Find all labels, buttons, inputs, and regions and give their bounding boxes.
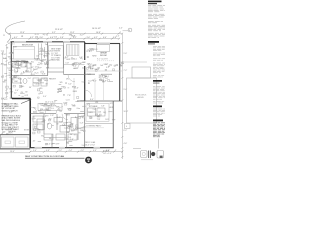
svg-text:HDR: HDR xyxy=(35,58,40,60)
svg-text:3'-0": 3'-0" xyxy=(80,35,84,37)
svg-text:42": 42" xyxy=(33,140,36,142)
great room bottom dim line xyxy=(85,70,122,72)
svg-text:NEW: NEW xyxy=(24,62,28,64)
svg-text:NEW: NEW xyxy=(67,108,71,110)
svg-text:NEW: NEW xyxy=(73,91,77,93)
svg-text:9'-2": 9'-2" xyxy=(43,116,47,118)
dense lower right of center xyxy=(64,122,85,134)
svg-text:5'-8": 5'-8" xyxy=(42,74,46,76)
svg-text:42": 42" xyxy=(105,64,108,66)
svg-text:4'-4": 4'-4" xyxy=(69,150,73,152)
svg-text:NEW: NEW xyxy=(15,64,19,66)
svg-text:19'-4": 19'-4" xyxy=(10,151,15,153)
svg-text:42": 42" xyxy=(8,43,11,45)
svg-text:4'-2": 4'-2" xyxy=(94,37,98,39)
svg-text:6: 6 xyxy=(126,126,127,128)
svg-text:5'-8": 5'-8" xyxy=(65,63,69,65)
svg-text:9'-2": 9'-2" xyxy=(13,77,17,79)
svg-text:NEW: NEW xyxy=(43,56,47,58)
svg-text:NEW: NEW xyxy=(92,56,96,58)
top dimension line 2 xyxy=(12,38,120,40)
bottom band specks xyxy=(33,134,86,147)
svg-text:1'-8": 1'-8" xyxy=(42,50,46,52)
svg-text:5'-8": 5'-8" xyxy=(60,37,64,39)
svg-text:A5.1: A5.1 xyxy=(73,58,77,61)
svg-text:12'-6": 12'-6" xyxy=(46,144,51,146)
svg-text:SIM: SIM xyxy=(72,64,76,66)
lower center band 1 xyxy=(33,100,85,113)
bath area specks xyxy=(14,61,50,76)
svg-text:GREAT: GREAT xyxy=(100,52,108,55)
svg-text:16'-8": 16'-8" xyxy=(96,32,101,34)
right exterior wall xyxy=(119,44,121,102)
svg-text:5'-8": 5'-8" xyxy=(82,82,86,84)
bath fixtures xyxy=(13,63,48,86)
svg-text:PANTRY: PANTRY xyxy=(49,78,57,81)
svg-text:4'-2": 4'-2" xyxy=(81,150,85,152)
svg-text:2x6: 2x6 xyxy=(36,56,39,58)
line left of icons xyxy=(133,148,141,150)
left exterior wall xyxy=(10,42,12,99)
top exterior wall left span xyxy=(11,41,86,43)
svg-text:4'-6": 4'-6" xyxy=(93,150,97,152)
title bubble xyxy=(85,157,92,164)
svg-text:36": 36" xyxy=(29,87,32,89)
svg-text:42": 42" xyxy=(14,93,17,95)
svg-text:4'-8": 4'-8" xyxy=(103,81,107,83)
svg-text:42": 42" xyxy=(51,144,54,146)
svg-text:12'-6": 12'-6" xyxy=(74,87,79,89)
svg-text:36": 36" xyxy=(25,91,28,93)
windows top wall xyxy=(14,41,70,42)
svg-text:9'-1" CLG HT: 9'-1" CLG HT xyxy=(97,59,109,61)
svg-text:3'-0": 3'-0" xyxy=(89,51,93,53)
svg-text:SIM: SIM xyxy=(46,67,50,69)
svg-text:6'-0": 6'-0" xyxy=(47,106,51,108)
lower center band 2 xyxy=(32,114,86,134)
svg-text:R-21: R-21 xyxy=(105,119,109,121)
svg-text:COVERED PATIO: COVERED PATIO xyxy=(86,125,102,128)
svg-text:SIM: SIM xyxy=(121,63,125,65)
bedroom bottom wall xyxy=(11,60,28,62)
hall closet rects xyxy=(33,116,43,130)
bottom dimension line xyxy=(30,151,122,153)
svg-text:SIM: SIM xyxy=(56,106,60,108)
annotation box xyxy=(49,46,64,69)
lower center fixtures xyxy=(37,118,77,141)
garage door rect 2 xyxy=(16,137,29,147)
master label box xyxy=(38,104,62,111)
interior wall bedroom right xyxy=(47,42,49,76)
svg-text:5'-8": 5'-8" xyxy=(101,105,105,107)
garage top wall xyxy=(0,134,30,136)
svg-text:4: 4 xyxy=(129,30,130,32)
mid-right horizontal wall xyxy=(77,100,122,102)
below great room wall xyxy=(87,74,113,84)
svg-text:9'-2": 9'-2" xyxy=(52,32,56,34)
svg-text:4'-6": 4'-6" xyxy=(124,143,128,145)
closet cluster specks xyxy=(36,44,52,66)
svg-text:3'-0": 3'-0" xyxy=(44,63,48,65)
svg-text:12'-6": 12'-6" xyxy=(2,54,7,56)
svg-text:R-21: R-21 xyxy=(18,79,22,81)
svg-text:NEW CONSTRUCTION FLOOR PLAN: NEW CONSTRUCTION FLOOR PLAN xyxy=(25,155,65,158)
right of stair specks xyxy=(63,57,86,70)
dense legal block xyxy=(153,120,163,122)
svg-text:2-CAR: 2-CAR xyxy=(8,128,14,131)
svg-text:R-21: R-21 xyxy=(35,34,39,36)
svg-text:CLG: CLG xyxy=(51,104,55,106)
svg-text:2'-4": 2'-4" xyxy=(35,125,39,127)
svg-text:SIM: SIM xyxy=(14,81,18,83)
svg-text:36": 36" xyxy=(3,131,6,133)
svg-text:6'-2": 6'-2" xyxy=(93,81,97,83)
y61 band specks xyxy=(14,58,48,64)
left dim texts xyxy=(1,47,14,134)
svg-text:2'-6": 2'-6" xyxy=(116,36,120,38)
svg-text:36": 36" xyxy=(70,134,73,136)
svg-text:SIM: SIM xyxy=(46,110,50,112)
deck leader xyxy=(121,61,148,63)
svg-text:6'-1": 6'-1" xyxy=(14,37,18,39)
heading 4 xyxy=(153,106,162,108)
stair landing edge xyxy=(64,64,85,66)
kitchen specks xyxy=(88,102,116,121)
svg-text:1'-8": 1'-8" xyxy=(79,57,83,59)
lower mid walls xyxy=(31,113,57,115)
svg-text:SIM: SIM xyxy=(88,67,92,69)
svg-text:R-21: R-21 xyxy=(35,73,39,75)
patio edge xyxy=(85,122,114,124)
svg-text:2'-4": 2'-4" xyxy=(72,35,76,37)
svg-text:5'-8": 5'-8" xyxy=(81,116,85,118)
svg-text:8'-4": 8'-4" xyxy=(90,99,94,101)
svg-text:3'-0": 3'-0" xyxy=(28,78,32,80)
lower right interior wall xyxy=(112,101,114,148)
svg-text:3'-0": 3'-0" xyxy=(68,84,72,86)
media niche rect xyxy=(97,45,110,52)
central hall wall xyxy=(84,42,86,60)
svg-text:36": 36" xyxy=(47,123,50,125)
svg-text:1'-8": 1'-8" xyxy=(65,139,69,141)
mid horizontal wall center xyxy=(48,71,64,73)
svg-text:6'-2": 6'-2" xyxy=(124,130,128,132)
lower interior wall horizontal xyxy=(44,137,67,139)
great room bottom wall xyxy=(85,73,95,75)
svg-text:ABOVE: ABOVE xyxy=(138,96,145,99)
svg-text:2x6: 2x6 xyxy=(54,36,57,38)
svg-text:5'-8": 5'-8" xyxy=(70,139,74,141)
door swing arcs xyxy=(31,62,92,120)
svg-text:3'-6": 3'-6" xyxy=(40,37,44,39)
heading 3 xyxy=(153,80,162,82)
svg-text:GARAGE: GARAGE xyxy=(8,130,16,133)
svg-text:2x6: 2x6 xyxy=(45,44,48,46)
svg-text:5'-0": 5'-0" xyxy=(33,150,37,152)
svg-text:NEW: NEW xyxy=(33,83,37,85)
interior wall stair left xyxy=(63,42,65,75)
garage bottom wall xyxy=(0,148,30,150)
bed rect xyxy=(14,47,35,60)
svg-text:SIM: SIM xyxy=(42,121,46,123)
svg-text:3'-0": 3'-0" xyxy=(87,37,91,39)
heading DOOR NOTES xyxy=(148,41,159,43)
icon rounded rect 2 xyxy=(157,151,164,159)
keynote box right of patio xyxy=(125,124,131,129)
svg-text:5'-8": 5'-8" xyxy=(80,122,84,124)
svg-text:5'-2": 5'-2" xyxy=(30,37,34,39)
svg-text:1'-8": 1'-8" xyxy=(50,115,54,117)
svg-text:9'-6": 9'-6" xyxy=(124,53,128,55)
svg-text:HDR: HDR xyxy=(66,59,71,61)
svg-text:7'-2": 7'-2" xyxy=(124,70,128,72)
svg-text:12'-6": 12'-6" xyxy=(20,32,25,34)
revision break curve top-left xyxy=(5,21,25,43)
deck main rect xyxy=(127,78,157,123)
stair treads xyxy=(67,45,78,56)
svg-text:12'-6": 12'-6" xyxy=(63,123,68,125)
bottom-left dim line xyxy=(0,152,30,154)
svg-text:3'-0": 3'-0" xyxy=(43,96,47,98)
svg-text:36": 36" xyxy=(45,84,48,86)
svg-text:3'-2": 3'-2" xyxy=(59,150,63,152)
svg-text:1'-8": 1'-8" xyxy=(21,73,25,75)
svg-text:ROOM: ROOM xyxy=(100,55,107,57)
svg-text:1/4" = 1'-0": 1/4" = 1'-0" xyxy=(103,153,112,155)
icon caption xyxy=(141,159,153,161)
lower interior wall verticals xyxy=(44,114,78,148)
svg-text:2x6: 2x6 xyxy=(98,112,101,114)
svg-text:A5.1: A5.1 xyxy=(92,64,96,67)
garage door rect 1 xyxy=(2,137,15,147)
svg-text:1'-8": 1'-8" xyxy=(93,109,97,111)
svg-text:22'-8 1/2": 22'-8 1/2" xyxy=(55,29,63,31)
mid horizontal wall left xyxy=(11,75,47,77)
svg-text:SIM: SIM xyxy=(4,65,8,67)
dimension ticks xyxy=(9,33,124,40)
svg-text:36": 36" xyxy=(40,64,43,66)
svg-text:HANDRAIL: HANDRAIL xyxy=(51,59,60,62)
svg-text:16'-10 1/2": 16'-10 1/2" xyxy=(92,28,101,30)
svg-text:CLG: CLG xyxy=(66,100,70,102)
svg-text:9'-2": 9'-2" xyxy=(57,117,61,119)
svg-text:3'-0": 3'-0" xyxy=(65,57,69,59)
svg-text:2x6: 2x6 xyxy=(15,71,18,73)
svg-text:A5.1: A5.1 xyxy=(11,42,15,45)
notes paragraph 4 xyxy=(153,109,165,116)
speckle dim gaps xyxy=(22,34,84,39)
svg-text:SIDING TO MATCH: SIDING TO MATCH xyxy=(2,110,19,113)
right vertical dimension line xyxy=(121,33,123,159)
notes paragraph 3 xyxy=(153,87,165,103)
svg-text:R-21: R-21 xyxy=(94,49,98,51)
left vertical dimension lines xyxy=(2,52,4,134)
hall dim vertical xyxy=(73,78,75,100)
svg-text:9'-0": 9'-0" xyxy=(124,89,128,91)
windows in bottom wall xyxy=(35,147,101,149)
svg-text:6'-0": 6'-0" xyxy=(1,98,5,100)
great room left specks xyxy=(86,49,97,58)
hall area specks xyxy=(13,77,49,99)
svg-text:36": 36" xyxy=(29,63,32,65)
svg-text:4'-8": 4'-8" xyxy=(46,150,50,152)
svg-text:R-21: R-21 xyxy=(87,74,91,76)
svg-text:6'-4": 6'-4" xyxy=(103,37,107,39)
left wall ticks xyxy=(8,42,17,80)
icon rounded rect 1 xyxy=(141,151,148,158)
svg-text:R-21: R-21 xyxy=(38,80,42,82)
svg-text:4'-0": 4'-0" xyxy=(119,27,123,29)
heavy corner wall lower-left xyxy=(12,98,31,100)
svg-text:NEW: NEW xyxy=(95,69,99,71)
notes top paragraphs xyxy=(148,6,165,38)
svg-text:A5.1: A5.1 xyxy=(105,75,109,78)
icon bars + circle xyxy=(149,151,151,159)
svg-text:PATIO SLAB: PATIO SLAB xyxy=(85,141,96,144)
top dimension line 1 xyxy=(9,33,123,35)
kitchen room outline xyxy=(86,104,109,122)
dim verticals above kitchen xyxy=(95,78,104,100)
connector below legal block xyxy=(158,139,160,149)
svg-text:SIM: SIM xyxy=(40,109,44,111)
svg-text:9'-2": 9'-2" xyxy=(72,105,76,107)
svg-text:STOR: STOR xyxy=(24,130,30,132)
notes mid paragraphs xyxy=(153,47,165,78)
bottom exterior wall xyxy=(30,147,114,149)
svg-text:16'-0" x 8'-0": 16'-0" x 8'-0" xyxy=(85,145,95,147)
garage left wall xyxy=(0,135,2,149)
svg-text:2x6: 2x6 xyxy=(100,65,103,67)
svg-text:HDR: HDR xyxy=(89,112,94,114)
closet shelving xyxy=(39,44,48,60)
svg-text:SIM: SIM xyxy=(59,91,63,93)
svg-text:5'-8": 5'-8" xyxy=(9,73,13,75)
svg-text:KITCHEN: KITCHEN xyxy=(89,106,98,108)
svg-text:HDR: HDR xyxy=(109,107,114,109)
deck upper rect xyxy=(132,67,151,78)
center text block specks xyxy=(57,82,86,99)
great room dim text band xyxy=(87,63,125,71)
svg-text:2'-4": 2'-4" xyxy=(73,66,77,68)
svg-text:42": 42" xyxy=(82,68,85,70)
leader arrow xyxy=(21,100,31,104)
svg-text:HDR: HDR xyxy=(13,47,18,49)
svg-text:10'-4": 10'-4" xyxy=(124,111,129,113)
top exterior wall right span xyxy=(85,43,120,45)
svg-text:36": 36" xyxy=(20,61,23,63)
notes heading 1 xyxy=(148,1,162,3)
svg-text:1'-8": 1'-8" xyxy=(63,102,67,104)
